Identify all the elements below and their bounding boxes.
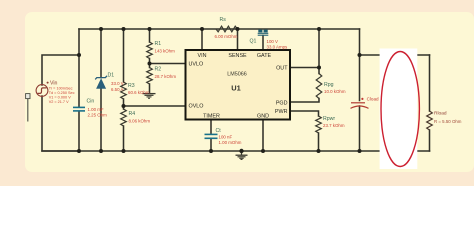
- svg-text:LM5066: LM5066: [227, 71, 246, 77]
- capacitor Cin: [73, 107, 85, 111]
- svg-text:R2: R2: [155, 66, 162, 72]
- svg-text:100 nF: 100 nF: [219, 134, 233, 139]
- wire R1 upper lead: [149, 29, 151, 42]
- svg-text:UVLO: UVLO: [189, 62, 204, 68]
- svg-text:33.0 V: 33.0 V: [111, 81, 124, 86]
- svg-text:V2 = 21.7 V: V2 = 21.7 V: [49, 100, 69, 104]
- wire OVLO: [124, 105, 186, 107]
- svg-text:6.00 mOhm: 6.00 mOhm: [215, 34, 238, 39]
- junction nodes: [77, 27, 362, 153]
- resistor R2: [147, 68, 153, 85]
- resistor R4: [121, 109, 127, 126]
- svg-text:60.6 kOhm: 60.6 kOhm: [128, 90, 150, 95]
- value Ct: [219, 134, 242, 145]
- wire Cin column to top rail: [78, 29, 80, 55]
- svg-text:Cload: Cload: [367, 97, 379, 102]
- svg-text:Tr = 100mSec: Tr = 100mSec: [49, 86, 73, 90]
- wire Vin bottom: [42, 96, 79, 151]
- wire output node column: [318, 29, 320, 74]
- svg-text:PGD: PGD: [276, 101, 288, 107]
- svg-text:1.00 mF: 1.00 mF: [88, 107, 104, 112]
- svg-text:R = 5.50 Ohm: R = 5.50 Ohm: [434, 119, 462, 124]
- IC U1 LM5069: [186, 50, 291, 120]
- capacitor Cload: [351, 103, 369, 109]
- resistor Rpg: [316, 74, 322, 99]
- wire Rpg to PGD: [290, 99, 319, 103]
- svg-text:23.7 kOhm: 23.7 kOhm: [323, 123, 345, 128]
- wire TIMER to Ct: [210, 120, 212, 135]
- wire Cload upper lead: [359, 55, 361, 101]
- svg-text:TIMER: TIMER: [203, 114, 220, 120]
- svg-text:10.0 kOhm: 10.0 kOhm: [324, 89, 346, 94]
- svg-text:1.00 mOhm: 1.00 mOhm: [219, 140, 242, 145]
- wire UVLO: [150, 63, 186, 65]
- wire D1 upper lead: [100, 29, 102, 78]
- wire OUT pin: [290, 67, 319, 69]
- svg-text:GND: GND: [257, 114, 269, 120]
- wire Ct lower lead: [210, 139, 212, 151]
- svg-text:Td = 0.250 Sec: Td = 0.250 Sec: [49, 91, 75, 95]
- resistor Rpwr: [316, 116, 322, 133]
- value Vin parameters: [49, 86, 75, 104]
- resistor Rs: [216, 26, 237, 32]
- svg-text:OVLO: OVLO: [189, 104, 204, 110]
- svg-text:U1: U1: [231, 83, 240, 92]
- svg-text:Q1: Q1: [250, 39, 257, 45]
- wire Rload lower lead: [429, 130, 431, 151]
- voltage source Vin: [36, 85, 48, 97]
- wire load branch: [360, 54, 430, 56]
- label Vin: [47, 81, 58, 87]
- svg-text:28.7 kOhm: 28.7 kOhm: [155, 74, 177, 79]
- wire R3-R4 junction lead: [123, 99, 125, 109]
- wire PWR to Rpwr: [290, 111, 319, 116]
- svg-text:R4: R4: [129, 111, 136, 117]
- ground (below R2): [143, 94, 156, 99]
- wire R2 to ground: [149, 84, 151, 93]
- svg-text:Rpg: Rpg: [324, 82, 334, 88]
- value Cin: [88, 107, 108, 118]
- label Cload: [361, 97, 379, 102]
- resistor R1: [147, 42, 153, 59]
- svg-text:Rs: Rs: [220, 17, 227, 23]
- value Q1: [267, 39, 289, 50]
- svg-text:Ct: Ct: [216, 128, 222, 134]
- svg-text:D1: D1: [108, 72, 115, 78]
- wire rail corner down to load node: [359, 29, 361, 55]
- backgrounds (decorative): [0, 0, 474, 186]
- svg-text:8.06 kOhm: 8.06 kOhm: [129, 118, 151, 123]
- wire R3 upper lead: [123, 29, 125, 82]
- wire top rail: [79, 28, 360, 30]
- svg-text:100 V: 100 V: [267, 39, 279, 44]
- wire SENSE pin: [237, 29, 239, 50]
- zener diode D1: [95, 76, 107, 89]
- svg-text:SENSE: SENSE: [228, 53, 247, 59]
- svg-text:PWR: PWR: [275, 109, 288, 115]
- wire bottom rail: [42, 150, 430, 152]
- svg-text:VIN: VIN: [198, 53, 207, 59]
- wire Rpwr lower lead: [318, 133, 320, 151]
- svg-text:Cin: Cin: [87, 98, 95, 104]
- svg-text:OUT: OUT: [276, 66, 288, 72]
- svg-text:143 kOhm: 143 kOhm: [155, 48, 176, 53]
- wire R4 lower lead: [123, 126, 125, 151]
- resistor R3: [121, 82, 127, 99]
- svg-text:6.50 A: 6.50 A: [111, 87, 124, 92]
- resistor Rload: [427, 111, 433, 130]
- wire Cin lower lead: [78, 112, 80, 152]
- svg-text:2.25 Ohm: 2.25 Ohm: [88, 112, 108, 117]
- wire GND pin: [262, 120, 264, 152]
- wire Vin top to node: [42, 55, 78, 85]
- svg-text:R1: R1: [155, 41, 162, 47]
- ground (system, below bottom rail): [236, 151, 248, 160]
- svg-text:Rload: Rload: [434, 110, 447, 116]
- wire VIN pin: [201, 29, 203, 50]
- wire R1-R2 junction lead: [149, 59, 151, 68]
- svg-text:Rpwr: Rpwr: [323, 116, 335, 122]
- wire GATE pin to Q1: [262, 36, 264, 51]
- load highlight ellipse: [380, 49, 420, 170]
- wire Cload lower lead: [359, 106, 361, 151]
- wire Cin upper lead: [78, 55, 80, 107]
- svg-text:GATE: GATE: [257, 53, 272, 59]
- wire Rload upper lead: [429, 55, 431, 111]
- value D1: [111, 81, 124, 92]
- svg-text:R3: R3: [128, 83, 135, 89]
- capacitor Ct: [205, 134, 218, 138]
- wire D1 lower lead: [100, 89, 102, 152]
- MOSFET Q1: [258, 30, 269, 36]
- svg-text:V1 = 0.000 V: V1 = 0.000 V: [49, 95, 72, 99]
- svg-text:33.0 Amps: 33.0 Amps: [267, 44, 289, 49]
